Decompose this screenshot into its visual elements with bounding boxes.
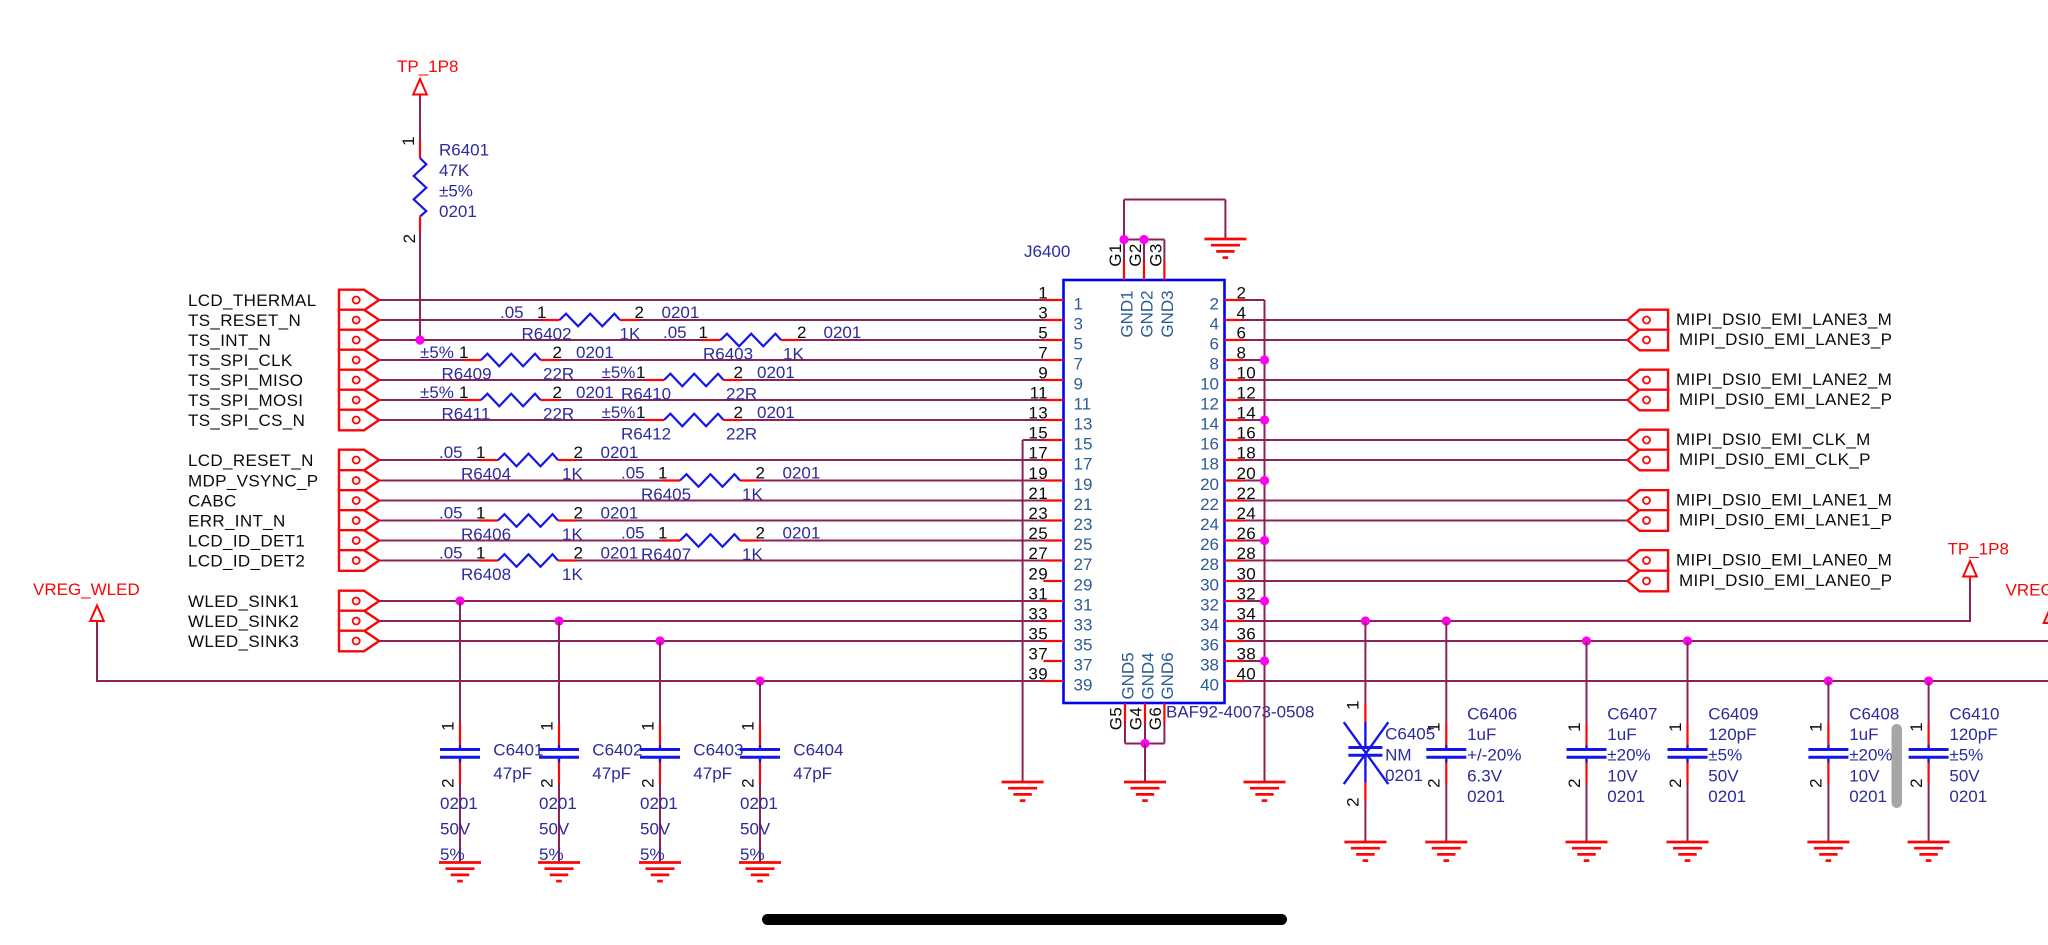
svg-text:0201: 0201 (824, 323, 862, 342)
svg-text:WLED_SINK2: WLED_SINK2 (188, 612, 299, 631)
svg-text:G5: G5 (1107, 707, 1126, 730)
svg-text:2: 2 (574, 504, 584, 523)
wire TP_1P8 to R6401 pin 1 (419, 98, 421, 141)
svg-text:2: 2 (1907, 778, 1926, 788)
J6400 pin 3 (1038, 304, 1083, 334)
J6400 pin 9 (1038, 364, 1083, 394)
wire LCD_ID_DET2 (flag to R) (379, 560, 479, 562)
svg-text:1: 1 (658, 524, 668, 543)
svg-text:2: 2 (756, 464, 766, 483)
svg-text:NM: NM (1385, 745, 1411, 764)
wire G2 riser (1143, 240, 1145, 262)
svg-text:.05: .05 (439, 443, 463, 462)
svg-text:7: 7 (1038, 344, 1048, 363)
svg-text:R6408: R6408 (461, 565, 511, 584)
svg-text:.05: .05 (621, 524, 645, 543)
svg-text:36: 36 (1200, 636, 1219, 655)
svg-text:MIPI_DSI0_EMI_LANE3_M: MIPI_DSI0_EMI_LANE3_M (1676, 310, 1892, 329)
svg-text:WLED_SINK3: WLED_SINK3 (188, 632, 299, 651)
svg-text:0201: 0201 (601, 504, 639, 523)
wire G5 drop (1124, 722, 1126, 744)
svg-text:MIPI_DSI0_EMI_CLK_M: MIPI_DSI0_EMI_CLK_M (1676, 430, 1871, 449)
svg-text:C6401: C6401 (493, 741, 543, 760)
wire J6400 pin 12 to MIPI_DSI0_EMI_LANE2_P (1244, 399, 1628, 401)
svg-text:25: 25 (1074, 535, 1093, 554)
wire J6400 pin 40 rail (1244, 680, 2048, 682)
svg-text:23: 23 (1028, 504, 1048, 523)
J6400 pin 19 (1028, 464, 1092, 494)
svg-text:GND2: GND2 (1138, 290, 1157, 337)
svg-text:GND6: GND6 (1158, 652, 1177, 699)
svg-text:1: 1 (476, 504, 486, 523)
J6400 pin 13 (1028, 404, 1092, 434)
junction bus pin 8 (1260, 355, 1269, 364)
svg-text:0201: 0201 (662, 303, 700, 322)
svg-text:1: 1 (438, 721, 457, 731)
svg-text:TS_RESET_N: TS_RESET_N (188, 311, 301, 330)
svg-text:47pF: 47pF (793, 764, 832, 783)
svg-text:LCD_RESET_N: LCD_RESET_N (188, 451, 314, 470)
svg-text:MIPI_DSI0_EMI_CLK_P: MIPI_DSI0_EMI_CLK_P (1679, 450, 1871, 469)
svg-text:R6412: R6412 (621, 425, 671, 444)
wire J6400 pin 36 rail (1244, 640, 2048, 642)
ground (below C6401) (439, 863, 481, 882)
junction C6404 tap (755, 676, 764, 685)
wire TS_SPI_CLK (flag to R) (379, 359, 462, 361)
svg-text:2: 2 (1344, 797, 1363, 807)
J6400 pin 17 (1028, 444, 1092, 474)
svg-text:16: 16 (1200, 435, 1219, 454)
ground (below C6410) (1908, 842, 1950, 861)
junction C6403 tap (655, 636, 664, 645)
wire ERR_INT_N (R to J6400 pin 23) (577, 520, 1044, 522)
svg-text:TS_SPI_MISO: TS_SPI_MISO (188, 371, 303, 390)
svg-text:1: 1 (1074, 295, 1083, 314)
wire J6400 pin 2 to bus (1244, 299, 1265, 301)
svg-text:30: 30 (1200, 576, 1219, 595)
wire LCD_RESET_N (flag to R) (379, 459, 479, 461)
svg-text:1: 1 (636, 363, 646, 382)
wire J6400 pin 4 to MIPI_DSI0_EMI_LANE3_M (1244, 319, 1628, 321)
svg-text:0201: 0201 (783, 464, 821, 483)
svg-text:C6408: C6408 (1849, 705, 1899, 724)
svg-text:50V: 50V (1949, 766, 1980, 785)
svg-text:TS_SPI_CLK: TS_SPI_CLK (188, 351, 293, 370)
svg-text:1: 1 (1565, 722, 1584, 732)
junction bus pin 32 (1260, 596, 1269, 605)
svg-text:1: 1 (459, 383, 469, 402)
input flag TS_SPI_MOSI (339, 390, 379, 411)
svg-text:15: 15 (1074, 435, 1093, 454)
svg-text:1: 1 (537, 303, 547, 322)
svg-text:R6403: R6403 (703, 345, 753, 364)
svg-text:3: 3 (1074, 315, 1083, 334)
capacitor C6406 (1426, 621, 1466, 842)
svg-text:0201: 0201 (576, 343, 614, 362)
svg-text:2: 2 (574, 544, 584, 563)
svg-text:35: 35 (1028, 625, 1048, 644)
svg-text:1: 1 (1907, 722, 1926, 732)
J6400 pin 5 (1038, 324, 1083, 354)
wire J6400 pin 16 to MIPI_DSI0_EMI_CLK_M (1244, 439, 1628, 441)
input flag LCD_THERMAL (339, 290, 379, 311)
svg-text:13: 13 (1028, 404, 1048, 423)
svg-text:1: 1 (636, 403, 646, 422)
junction bus pin 20 (1260, 476, 1269, 485)
svg-text:±20%: ±20% (1849, 746, 1892, 765)
svg-text:0201: 0201 (539, 794, 577, 813)
junction bus pin 14 (1260, 415, 1269, 424)
ground (below C6404) (739, 863, 781, 882)
connector J6400 body (1064, 280, 1225, 703)
input flag LCD_ID_DET1 (339, 530, 379, 551)
svg-text:1: 1 (459, 343, 469, 362)
wire J6400 pin 32 to bus (1244, 600, 1265, 602)
J6400 pin 15 (1028, 424, 1092, 454)
wire TP_1P8 (right) riser (1969, 580, 1971, 622)
svg-text:1K: 1K (742, 545, 763, 564)
svg-text:WLED_SINK1: WLED_SINK1 (188, 592, 299, 611)
junction G1 tie (1119, 235, 1128, 244)
wire top gnd drop (1224, 200, 1226, 240)
junction C6408 tap (1824, 676, 1833, 685)
J6400 pin 8 (1210, 344, 1247, 374)
svg-text:0201: 0201 (601, 544, 639, 563)
wire G4 to ground (1144, 744, 1146, 783)
svg-text:39: 39 (1074, 676, 1093, 695)
wire J6400 pin 15 elbow (1023, 439, 1044, 441)
svg-text:47pF: 47pF (493, 764, 532, 783)
ground (top right of J6400) (1204, 239, 1246, 258)
svg-text:±5%: ±5% (602, 363, 636, 382)
svg-text:C6410: C6410 (1949, 705, 1999, 724)
svg-text:±5%: ±5% (1949, 746, 1983, 765)
ground (below J6400 left) (1002, 782, 1044, 801)
svg-text:MDP_VSYNC_P: MDP_VSYNC_P (188, 472, 318, 491)
svg-text:1K: 1K (783, 345, 804, 364)
svg-text:47pF: 47pF (693, 764, 732, 783)
svg-text:22R: 22R (543, 365, 574, 384)
input flag TS_SPI_CS_N (339, 410, 379, 431)
svg-text:50V: 50V (1708, 766, 1739, 785)
svg-text:1: 1 (1666, 722, 1685, 732)
svg-text:27: 27 (1074, 555, 1093, 574)
wire LCD_ID_DET2 (R to J6400 pin 27) (577, 560, 1044, 562)
J6400 pin G6 (1146, 703, 1165, 730)
input flag TS_INT_N (339, 330, 379, 351)
J6400 pin 37 (1028, 645, 1092, 675)
svg-text:0201: 0201 (783, 524, 821, 543)
svg-text:0201: 0201 (1849, 787, 1887, 806)
wire G4 drop (1144, 722, 1146, 744)
output flag MIPI_DSI0_EMI_LANE1_M (1628, 490, 1669, 511)
wire WLED_SINK2 to J6400 pin 33 (379, 620, 1043, 622)
wire CABC to J6400 pin 21 (379, 500, 1043, 502)
input flag WLED_SINK3 (339, 631, 379, 652)
svg-text:TP_1P8: TP_1P8 (397, 57, 458, 76)
svg-text:MIPI_DSI0_EMI_LANE1_P: MIPI_DSI0_EMI_LANE1_P (1679, 511, 1892, 530)
svg-text:22R: 22R (726, 385, 757, 404)
ground (below C6409) (1667, 842, 1709, 861)
svg-text:29: 29 (1074, 576, 1093, 595)
svg-text:9: 9 (1038, 364, 1048, 383)
wire J6400 pin 18 to MIPI_DSI0_EMI_CLK_P (1244, 459, 1628, 461)
wire ERR_INT_N (flag to R) (379, 520, 479, 522)
svg-text:24: 24 (1200, 515, 1219, 534)
svg-text:R6406: R6406 (461, 525, 511, 544)
svg-text:12: 12 (1200, 395, 1219, 414)
svg-text:50V: 50V (440, 819, 471, 838)
svg-text:1uF: 1uF (1467, 725, 1496, 744)
svg-text:2: 2 (1807, 778, 1826, 788)
svg-text:LCD_ID_DET1: LCD_ID_DET1 (188, 532, 305, 551)
wire J6400 pin 6 to MIPI_DSI0_EMI_LANE3_P (1244, 339, 1628, 341)
svg-text:C6403: C6403 (693, 741, 743, 760)
svg-text:2: 2 (537, 778, 556, 788)
svg-text:50V: 50V (640, 819, 671, 838)
wire J6400 pin 10 to MIPI_DSI0_EMI_LANE2_M (1244, 379, 1628, 381)
junction bus pin 26 (1260, 536, 1269, 545)
capacitor C6410 (1909, 681, 1949, 842)
svg-text:31: 31 (1074, 596, 1093, 615)
ground (below J6400 right bus) (1244, 782, 1286, 801)
svg-text:.05: .05 (663, 323, 687, 342)
svg-text:1uF: 1uF (1849, 725, 1878, 744)
svg-text:GND3: GND3 (1158, 290, 1177, 337)
J6400 pin 21 (1028, 484, 1092, 514)
output flag MIPI_DSI0_EMI_LANE2_P (1628, 390, 1669, 411)
svg-text:0201: 0201 (601, 443, 639, 462)
svg-text:R6411: R6411 (442, 405, 491, 424)
svg-text:39: 39 (1028, 665, 1048, 684)
svg-text:2: 2 (638, 778, 657, 788)
svg-text:1: 1 (1344, 700, 1363, 710)
junction C6402 tap (554, 616, 563, 625)
capacitor C6404 (740, 681, 780, 863)
wire TS_SPI_MOSI (R to J6400 pin 11) (559, 399, 1044, 401)
svg-text:R6409: R6409 (442, 365, 492, 384)
wire G3 riser (1163, 240, 1165, 262)
svg-text:33: 33 (1074, 616, 1093, 635)
wire J6400 pin 28 to MIPI_DSI0_EMI_LANE0_M (1244, 560, 1628, 562)
J6400 pin 28 (1200, 544, 1256, 574)
wire WLED_SINK3 to J6400 pin 35 (379, 640, 1043, 642)
wire WLED_SINK1 to J6400 pin 31 (379, 600, 1043, 602)
svg-text:1: 1 (638, 721, 657, 731)
svg-text:11: 11 (1030, 384, 1048, 403)
svg-text:J6400: J6400 (1024, 242, 1070, 261)
capacitor C6401 (440, 601, 480, 863)
svg-text:±5%: ±5% (439, 182, 473, 201)
svg-text:R6410: R6410 (621, 385, 671, 404)
wire J6400 pin 38 to bus (1244, 660, 1265, 662)
svg-text:33: 33 (1028, 605, 1048, 624)
junction C6407 tap (1582, 636, 1591, 645)
input flag WLED_SINK1 (339, 591, 379, 612)
svg-text:10: 10 (1200, 375, 1219, 394)
J6400 pin G3 (1146, 243, 1165, 280)
svg-text:7: 7 (1074, 355, 1083, 374)
svg-text:1: 1 (1425, 722, 1444, 732)
svg-text:C6409: C6409 (1708, 705, 1758, 724)
wire J6400 pin 34 rail (1244, 620, 1970, 622)
svg-text:34: 34 (1200, 616, 1219, 635)
J6400 pin 12 (1200, 384, 1256, 414)
capacitor C6408 (1808, 681, 1848, 842)
svg-text:LCD_THERMAL: LCD_THERMAL (188, 291, 317, 310)
wire J6400 pin 26 to bus (1244, 540, 1265, 542)
J6400 pin G1 (1106, 243, 1125, 280)
svg-text:1K: 1K (742, 485, 763, 504)
svg-text:5: 5 (1038, 324, 1048, 343)
svg-text:BAF92-40073-0508: BAF92-40073-0508 (1166, 703, 1314, 722)
wire TS_SPI_CLK (R to J6400 pin 7) (559, 359, 1044, 361)
wire J6400 pin 8 to bus (1244, 359, 1265, 361)
svg-text:0201: 0201 (439, 202, 477, 221)
svg-text:G3: G3 (1146, 243, 1165, 266)
input flag ERR_INT_N (339, 510, 379, 531)
svg-text:0201: 0201 (1467, 787, 1505, 806)
svg-text:2: 2 (734, 363, 744, 382)
J6400 pin G4 (1127, 703, 1146, 730)
input flag CABC (339, 490, 379, 511)
junction G2 tie (1139, 235, 1148, 244)
J6400 pin 20 (1200, 464, 1256, 494)
svg-text:MIPI_DSI0_EMI_LANE1_M: MIPI_DSI0_EMI_LANE1_M (1676, 491, 1892, 510)
J6400 pin 27 (1028, 544, 1092, 574)
svg-text:37: 37 (1028, 645, 1048, 664)
wire J6400 pin 14 to bus (1244, 419, 1265, 421)
J6400 pin 26 (1200, 524, 1256, 554)
svg-text:2: 2 (635, 303, 645, 322)
resistor R6410 (646, 374, 743, 387)
J6400 pin 32 (1200, 585, 1256, 615)
wire TS_RESET_N (flag to R) (379, 319, 541, 321)
input flag LCD_RESET_N (339, 450, 379, 471)
output flag MIPI_DSI0_EMI_LANE0_P (1628, 571, 1669, 592)
svg-text:R6402: R6402 (522, 325, 572, 344)
svg-text:32: 32 (1200, 596, 1219, 615)
wire R6401 pin 2 to TS_INT_N (419, 231, 421, 340)
J6400 pin G5 (1107, 703, 1126, 730)
svg-text:1: 1 (1038, 284, 1048, 303)
svg-text:R6404: R6404 (461, 465, 511, 484)
svg-text:1K: 1K (620, 325, 641, 344)
capacitor C6403 (640, 641, 680, 863)
wire TS_INT_N (flag to R) (379, 339, 702, 341)
svg-text:0201: 0201 (1607, 787, 1645, 806)
J6400 pin 24 (1200, 504, 1256, 534)
junction C6401 tap (455, 596, 464, 605)
svg-text:C6402: C6402 (592, 741, 642, 760)
output flag MIPI_DSI0_EMI_CLK_M (1628, 430, 1669, 451)
svg-text:2: 2 (738, 778, 757, 788)
J6400 pin 22 (1200, 484, 1256, 514)
svg-text:MIPI_DSI0_EMI_LANE3_P: MIPI_DSI0_EMI_LANE3_P (1679, 330, 1892, 349)
wire TS_RESET_N (R to J6400 pin 3) (639, 319, 1044, 321)
svg-text:.05: .05 (439, 504, 463, 523)
wire G5-G6 tie (1125, 743, 1164, 745)
svg-text:TS_SPI_MOSI: TS_SPI_MOSI (188, 391, 303, 410)
svg-text:1: 1 (537, 721, 556, 731)
output flag MIPI_DSI0_EMI_LANE2_M (1628, 370, 1669, 391)
resistor R6409 (463, 354, 560, 367)
power symbol VREG (right edge) (2044, 608, 2048, 624)
svg-text:TS_INT_N: TS_INT_N (188, 331, 271, 350)
svg-text:6.3V: 6.3V (1467, 766, 1503, 785)
J6400 pin 25 (1028, 524, 1092, 554)
svg-text:.05: .05 (621, 464, 645, 483)
svg-text:1uF: 1uF (1607, 725, 1636, 744)
J6400 pin 1 (1038, 284, 1083, 314)
resistor R6408 (480, 554, 577, 567)
svg-text:120pF: 120pF (1708, 725, 1756, 744)
wire LCD_THERMAL to J6400 pin 1 (379, 299, 1043, 301)
svg-text:1K: 1K (562, 465, 583, 484)
svg-text:14: 14 (1200, 415, 1219, 434)
svg-text:C6406: C6406 (1467, 705, 1517, 724)
capacitor C6402 (539, 621, 579, 863)
svg-text:±20%: ±20% (1607, 746, 1650, 765)
svg-text:37: 37 (1074, 656, 1093, 675)
svg-text:.05: .05 (439, 544, 463, 563)
svg-text:±5%: ±5% (420, 343, 454, 362)
svg-text:2: 2 (1666, 778, 1685, 788)
svg-text:22R: 22R (726, 425, 757, 444)
input flag WLED_SINK2 (339, 611, 379, 632)
wire J6400 pin 30 to MIPI_DSI0_EMI_LANE0_P (1244, 580, 1628, 582)
J6400 pin 10 (1200, 364, 1256, 394)
svg-text:2: 2 (797, 323, 807, 342)
svg-text:29: 29 (1028, 565, 1048, 584)
wire pin 15 to ground (1022, 440, 1024, 782)
svg-text:5: 5 (1074, 335, 1083, 354)
svg-text:0201: 0201 (1949, 787, 1987, 806)
svg-text:2: 2 (1425, 778, 1444, 788)
svg-text:0201: 0201 (757, 363, 795, 382)
svg-text:1K: 1K (562, 565, 583, 584)
junction C6406 tap (1442, 616, 1451, 625)
ground (below C6402) (538, 863, 580, 882)
svg-text:22: 22 (1200, 495, 1219, 514)
svg-text:10V: 10V (1607, 766, 1638, 785)
svg-text:±5%: ±5% (602, 403, 636, 422)
svg-text:R6407: R6407 (641, 545, 691, 564)
wire TS_SPI_MISO (flag to R) (379, 379, 645, 381)
svg-text:2: 2 (1565, 778, 1584, 788)
wire LCD_ID_DET1 (flag to R) (379, 540, 661, 542)
svg-text:26: 26 (1200, 535, 1219, 554)
svg-text:0201: 0201 (1385, 766, 1423, 785)
svg-text:47K: 47K (439, 161, 470, 180)
ground (below J6400 center) (1124, 782, 1166, 801)
svg-text:2: 2 (438, 778, 457, 788)
resistor R6401 (414, 141, 427, 232)
power symbol TP_1P8 (left) (413, 79, 427, 95)
capacitor C6409 (1668, 641, 1708, 842)
junction bus pin 38 (1260, 656, 1269, 665)
svg-text:3: 3 (1038, 304, 1048, 323)
svg-text:2: 2 (756, 524, 766, 543)
wire TS_SPI_CS_N (R to J6400 pin 13) (742, 419, 1044, 421)
wire LCD_ID_DET1 (R to J6400 pin 25) (759, 540, 1044, 542)
svg-text:27: 27 (1028, 544, 1048, 563)
svg-text:1: 1 (658, 464, 668, 483)
svg-text:40: 40 (1200, 676, 1219, 695)
resistor R6406 (480, 514, 577, 527)
input flag LCD_ID_DET2 (339, 550, 379, 571)
svg-text:MIPI_DSI0_EMI_LANE0_M: MIPI_DSI0_EMI_LANE0_M (1676, 551, 1892, 570)
